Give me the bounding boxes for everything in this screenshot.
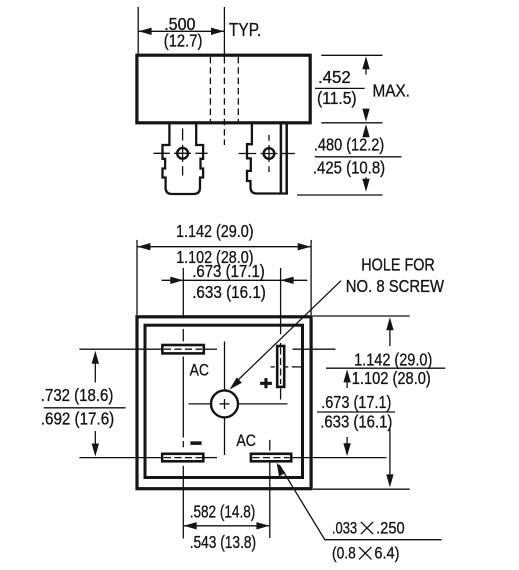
outer square [137, 317, 311, 489]
slot plus centerline dashes [280, 348, 282, 385]
dimension line 1.142 top [137, 246, 311, 248]
hidden centerline dashed [223, 57, 225, 145]
svg-text:6.4): 6.4) [374, 544, 399, 563]
dimension line .500 [138, 30, 224, 32]
extension line outer-right [310, 240, 312, 315]
svg-text:.633 (16.1): .633 (16.1) [320, 412, 392, 432]
svg-text:NO. 8 SCREW: NO. 8 SCREW [346, 276, 445, 296]
hole center horizontal dash [220, 403, 230, 405]
arrowhead right .500 [211, 28, 224, 35]
leader line to slot [279, 465, 441, 540]
extension line terminal bottom [297, 194, 383, 196]
svg-text:AC: AC [236, 431, 256, 450]
svg-text:(12.7): (12.7) [164, 31, 203, 51]
left dim extension bottom row (.692) [79, 457, 162, 459]
slot bottom-right centerline dashes [253, 457, 290, 459]
hidden terminal dashed line right [237, 57, 239, 121]
slot top-left [162, 345, 203, 353]
svg-text:1.142 (29.0): 1.142 (29.0) [176, 221, 254, 241]
hole horizontal centerline seg A [189, 403, 211, 405]
arrowhead left .500 [139, 28, 152, 35]
hole horizontal centerline seg B [239, 403, 288, 405]
fraction bar right 1.142/1.102 [326, 367, 445, 369]
vertical centerline left bottom (ext of .582) [182, 466, 184, 539]
right terminal outline [247, 123, 288, 194]
extension line square bottom right [313, 488, 410, 490]
fraction bar right .673/.633 [317, 411, 395, 413]
vertical centerline bottom-right (ext of .543) [269, 461, 271, 538]
vertical centerline left slots top [182, 268, 184, 318]
svg-text:MAX.: MAX. [373, 81, 410, 101]
hole vertical centerline seg B [224, 419, 226, 456]
extension line square top right [313, 315, 410, 317]
left terminal hole [177, 148, 188, 159]
vertical dashes above bottom-right slot [269, 440, 271, 451]
slot bottom-left centerline dashes [164, 457, 202, 459]
left terminal horizontal centerline [153, 152, 169, 154]
slot top-left centerline right stub [204, 348, 217, 350]
right terminal edge line 2 [285, 123, 288, 194]
times symbol 2 [359, 547, 371, 559]
leader line to hole [235, 281, 342, 384]
svg-text:.452: .452 [318, 67, 351, 87]
svg-text:AC: AC [190, 361, 209, 380]
arrow down 1.142 right [389, 429, 391, 482]
svg-text:.033: .033 [332, 519, 357, 538]
arrow up .452 [365, 62, 367, 75]
fraction bar .452/(11.5) [315, 87, 365, 89]
times symbol 1 [361, 522, 373, 534]
mounting hole circle [211, 390, 238, 417]
extension line left of .500 dim [137, 7, 139, 54]
svg-text:.732 (18.6): .732 (18.6) [41, 385, 114, 405]
svg-text:.250: .250 [376, 519, 405, 538]
slot top-left centerline dashes [164, 348, 202, 350]
dimension line .673 top [162, 279, 308, 281]
arrow up .480 [365, 130, 367, 136]
svg-text:.425 (10.8): .425 (10.8) [313, 157, 385, 177]
svg-text:(0.8: (0.8 [332, 544, 356, 563]
dimension line .582 [183, 525, 269, 527]
svg-text:1.102 (28.0): 1.102 (28.0) [352, 368, 431, 388]
svg-text:.582 (14.8): .582 (14.8) [190, 501, 256, 521]
arrow down .633 right [346, 437, 348, 450]
svg-text:.480 (12.2): .480 (12.2) [314, 134, 384, 154]
right terminal edge line 1 [280, 123, 283, 194]
svg-text:HOLE FOR: HOLE FOR [361, 255, 435, 275]
slot bottom-left [162, 454, 203, 462]
plus symbol [260, 382, 272, 385]
extension line top of .452 dim [321, 54, 382, 56]
extension line right of .500 dim [223, 7, 225, 57]
svg-text:TYP.: TYP. [229, 20, 261, 40]
inner square [145, 325, 303, 477]
plus slot horizontal row dashes [271, 366, 275, 368]
svg-text:.633 (16.1): .633 (16.1) [192, 282, 266, 302]
hidden terminal dashed line left [209, 57, 211, 121]
left dim extension top row (.732) [79, 348, 162, 350]
arrow down .692 [94, 431, 96, 451]
right terminal horizontal centerline [239, 153, 257, 155]
vertical centerline plus slot top [280, 268, 282, 334]
left terminal outline [163, 123, 204, 194]
leader arrowhead at slot [277, 463, 286, 477]
svg-text:.673 (17.1): .673 (17.1) [192, 261, 265, 281]
svg-text:.543 (13.8): .543 (13.8) [190, 532, 256, 552]
arrow up .673 right [346, 375, 348, 389]
svg-text:1.142 (29.0): 1.142 (29.0) [354, 350, 432, 370]
svg-text:.692 (17.6): .692 (17.6) [41, 409, 114, 429]
fraction bar .480/.425 [315, 156, 402, 158]
body outline [137, 55, 310, 123]
slot bottom-right [251, 454, 291, 462]
extension line outer-left [136, 240, 138, 315]
right terminal hole [264, 148, 275, 159]
svg-text:.673 (17.1): .673 (17.1) [321, 392, 391, 412]
right terminal vertical centerline [268, 135, 270, 141]
arrow down .452 [365, 109, 367, 116]
extension line bottom of .452 dim (body bottom) [321, 122, 382, 124]
left terminal vertical centerline [182, 128, 184, 140]
minus symbol [190, 441, 201, 445]
row stub right of plus slot at y349 [293, 348, 336, 350]
slot plus (vertical) [277, 346, 284, 387]
vertical centerline below top-left slot [182, 357, 184, 438]
hole center vertical dash [224, 399, 226, 409]
right dim extension bottom slot row (.633) [291, 457, 386, 459]
leader arrowhead at hole [230, 377, 242, 389]
arrow up 1.142 right [389, 323, 391, 346]
arrow down .425 [365, 177, 367, 186]
slot bottom-left right stub [203, 457, 217, 459]
arrow up .732 [94, 356, 96, 383]
vertical dashes below plus slot [280, 388, 282, 399]
fraction bar .732/.692 [44, 407, 126, 409]
svg-text:(11.5): (11.5) [317, 88, 357, 108]
hole vertical centerline seg A [224, 342, 226, 391]
